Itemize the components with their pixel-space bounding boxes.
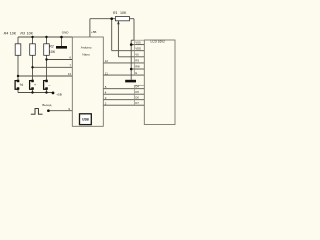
svg-text:+5B: +5B <box>91 30 96 34</box>
svg-text:USB: USB <box>82 117 89 121</box>
svg-text:D6: D6 <box>135 96 139 100</box>
svg-text:10K: 10K <box>27 32 34 36</box>
svg-text:R4: R4 <box>4 32 9 36</box>
svg-text:LCD 1602: LCD 1602 <box>151 40 166 44</box>
svg-text:R1: R1 <box>113 11 118 15</box>
svg-text:GND: GND <box>62 31 70 35</box>
svg-text:D7: D7 <box>135 101 139 105</box>
svg-text:VDD: VDD <box>135 46 141 50</box>
svg-text:R3: R3 <box>20 32 25 36</box>
svg-text:Arduino: Arduino <box>81 46 92 50</box>
svg-text:Nano: Nano <box>82 52 90 56</box>
svg-text:RW: RW <box>135 65 140 69</box>
svg-text:VSS: VSS <box>135 40 141 44</box>
svg-text:+5B: +5B <box>56 92 61 96</box>
svg-text:R2: R2 <box>49 45 54 49</box>
svg-text:10K: 10K <box>49 50 56 54</box>
svg-text:RS: RS <box>135 59 139 63</box>
svg-text:10K: 10K <box>120 11 127 15</box>
svg-text:V0: V0 <box>135 53 139 57</box>
svg-text:11: 11 <box>105 71 108 75</box>
svg-text:10K: 10K <box>10 32 17 36</box>
svg-text:D5: D5 <box>135 90 139 94</box>
svg-text:%: % <box>20 82 24 87</box>
svg-text:12: 12 <box>105 59 109 63</box>
svg-text:13: 13 <box>68 72 72 76</box>
svg-text:E: E <box>135 71 137 75</box>
svg-text:D4: D4 <box>135 85 139 89</box>
svg-text:Выход: Выход <box>42 103 51 107</box>
